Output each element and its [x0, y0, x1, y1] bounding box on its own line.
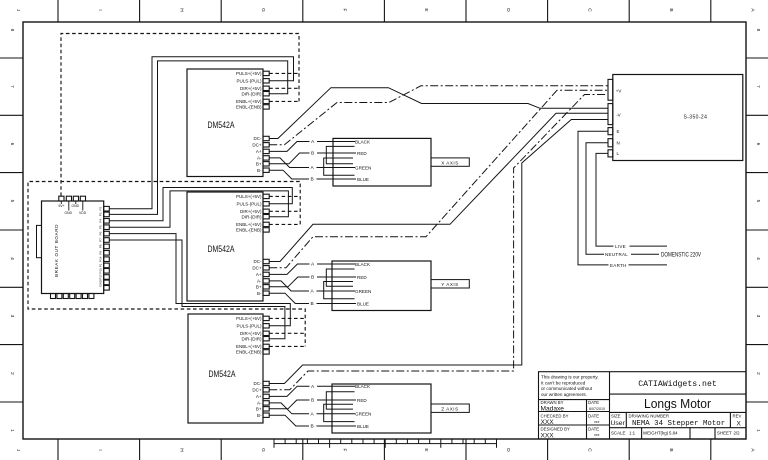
svg-text:Longs Motor: Longs Motor	[644, 396, 712, 411]
svg-text:PULS-(PUL): PULS-(PUL)	[236, 78, 262, 83]
svg-text:DIR+(+5V): DIR+(+5V)	[240, 209, 262, 214]
title block notes text	[541, 375, 599, 397]
svg-text:DM542A: DM542A	[209, 368, 237, 379]
wire U3 B+ jog	[269, 400, 309, 409]
svg-text:ENBL-(ENB): ENBL-(ENB)	[236, 105, 262, 110]
svg-text:DC-: DC-	[254, 381, 262, 386]
driver U1 power pin labels	[252, 136, 262, 173]
wire U3 B- jog	[269, 415, 309, 426]
svg-text:XXX: XXX	[541, 433, 555, 440]
driver U1 signal pin labels	[236, 71, 262, 110]
driver U2 signal pin labels	[236, 194, 262, 233]
wire U2 DC+ to PSU +V dash-dot	[269, 90, 608, 267]
svg-text:2: 2	[755, 372, 761, 375]
wire Y A to GREEN	[317, 290, 356, 292]
svg-text:B: B	[311, 151, 314, 157]
svg-text:DATE: DATE	[588, 400, 599, 405]
svg-text:6: 6	[755, 143, 761, 146]
svg-text:P2: P2	[99, 207, 103, 211]
wire Z A to GREEN	[317, 413, 356, 415]
wire X B to BLUE	[317, 178, 357, 180]
svg-text:5: 5	[9, 200, 15, 203]
wire Y B to RED	[317, 276, 356, 278]
svg-text:DC-: DC-	[254, 136, 262, 141]
wire U3 ENBL+ dashed stub	[269, 345, 305, 347]
power supply -V terminal	[608, 104, 613, 125]
svg-text:LIVE: LIVE	[615, 244, 626, 249]
svg-text:5: 5	[755, 200, 761, 203]
MOTOR X PHASE WIRES	[269, 142, 356, 180]
wire U3 A+ jog	[269, 386, 309, 396]
svg-text:B-: B-	[257, 413, 262, 418]
svg-text:NEMA 34 Stepper Motor: NEMA 34 Stepper Motor	[632, 420, 725, 428]
motor Z lead labels	[355, 384, 371, 429]
driver U3 signal pin labels	[236, 316, 262, 355]
motor Y wire labels	[311, 262, 316, 308]
wire P4 to U2 PULS-	[109, 188, 292, 221]
svg-text:PULS+(+5V): PULS+(+5V)	[236, 194, 262, 199]
motor Z body	[332, 384, 431, 433]
wire U1 A+ jog	[269, 142, 309, 152]
svg-text:DC+: DC+	[252, 142, 261, 147]
svg-text:PULS-(PUL): PULS-(PUL)	[236, 324, 262, 329]
svg-text:ENBL+(+5V): ENBL+(+5V)	[236, 344, 262, 349]
svg-text:E: E	[617, 129, 620, 134]
svg-text:C: C	[586, 8, 592, 12]
breakout board side tab	[37, 225, 42, 257]
svg-text:5V+: 5V+	[59, 204, 65, 208]
svg-text:DIR-(DIR): DIR-(DIR)	[242, 336, 262, 341]
BREAKOUT SIGNAL WIRES	[109, 57, 293, 339]
svg-text:DIR-(DIR): DIR-(DIR)	[242, 214, 262, 219]
+5V DASHED BUS	[28, 34, 305, 347]
wire U2 DC- to PSU -V	[269, 113, 608, 261]
wire Y B to BLUE	[317, 303, 357, 305]
svg-text:3: 3	[9, 315, 15, 318]
svg-text:EARTH: EARTH	[610, 263, 627, 268]
wire U2 A+ jog	[269, 264, 309, 274]
MOTOR Y PHASE WIRES	[269, 264, 356, 304]
svg-text:P8: P8	[99, 244, 103, 248]
motor X coil links	[324, 146, 355, 175]
wire U1 DIR+ dashed stub	[269, 87, 299, 89]
wire X B to RED	[317, 152, 356, 154]
wire U1 PULS+ dashed stub	[269, 72, 299, 74]
svg-text:SIZE: SIZE	[611, 414, 621, 419]
svg-text:our written agreement.: our written agreement.	[541, 392, 587, 397]
svg-text:4: 4	[9, 257, 15, 260]
svg-text:2/2: 2/2	[734, 431, 741, 436]
title block frame	[539, 372, 747, 439]
svg-text:DATE: DATE	[588, 427, 599, 432]
wire U3 DC+ to PSU +V dash-dot	[269, 95, 608, 390]
svg-text:6/07/2010: 6/07/2010	[589, 407, 605, 411]
svg-text:RED: RED	[357, 275, 367, 280]
svg-text:P16: P16	[99, 268, 103, 274]
svg-text:NEUTRAL: NEUTRAL	[605, 252, 628, 257]
grid numbers left	[9, 29, 15, 433]
driver U3 pin squares	[263, 316, 269, 417]
breakout board right pin labels	[99, 207, 103, 287]
power supply L terminal	[608, 150, 613, 157]
svg-text:WEIGHT(kg): WEIGHT(kg)	[643, 431, 669, 436]
wire U2 PULS+ dashed stub	[269, 195, 300, 197]
breakout board top pin labels	[59, 204, 87, 215]
svg-text:DIR+(+5V): DIR+(+5V)	[240, 86, 262, 91]
svg-text:-V: -V	[616, 113, 621, 118]
svg-text:xxx: xxx	[594, 420, 600, 424]
svg-text:ENBL+(+5V): ENBL+(+5V)	[236, 99, 262, 104]
power supply terminal labels	[616, 88, 622, 156]
driver U3 power pin labels	[252, 381, 262, 418]
svg-text:DIR+(+5V): DIR+(+5V)	[240, 331, 262, 336]
svg-text:SCALE: SCALE	[611, 431, 625, 436]
svg-text:ENBL+(+5V): ENBL+(+5V)	[236, 222, 262, 227]
MAINS WIRES	[578, 131, 667, 265]
svg-text:X AXIS: X AXIS	[441, 160, 459, 165]
svg-text:B: B	[311, 275, 314, 281]
svg-text:2: 2	[9, 372, 15, 375]
svg-text:A+: A+	[256, 149, 262, 154]
motor X wire labels	[311, 139, 316, 183]
wire Z A to BLACK	[317, 385, 355, 387]
power supply N terminal	[608, 139, 613, 147]
svg-text:G: G	[260, 448, 266, 452]
svg-text:P14: P14	[99, 256, 103, 262]
centring ruler strip	[274, 439, 497, 448]
svg-text:GREEN: GREEN	[355, 412, 371, 417]
wire LIVE tail	[630, 245, 668, 247]
svg-text:DC-: DC-	[254, 259, 262, 264]
svg-text:N: N	[617, 141, 620, 146]
svg-text:8: 8	[9, 29, 15, 32]
svg-text:DIR-(DIR): DIR-(DIR)	[242, 91, 262, 96]
svg-text:X: X	[737, 420, 742, 427]
wire X A to GREEN	[317, 167, 356, 169]
driver U3 body	[188, 314, 263, 423]
svg-text:B+: B+	[256, 161, 262, 166]
svg-text:E: E	[423, 448, 429, 451]
driver U1 pin squares	[263, 71, 269, 172]
motor Y shaft box	[431, 280, 469, 288]
wire +5V rail 2	[28, 182, 305, 347]
wire U2 ENBL+ dashed stub	[269, 223, 300, 225]
svg-text:F: F	[342, 449, 348, 452]
wire PSU L to LIVE	[596, 153, 614, 246]
svg-text:7: 7	[9, 85, 15, 88]
breakout board top pin stub wires	[61, 201, 83, 211]
svg-text:GND: GND	[65, 211, 73, 215]
svg-text:H: H	[178, 8, 184, 12]
svg-text:DATE: DATE	[588, 413, 599, 418]
svg-text:F: F	[342, 9, 348, 12]
wire EARTH tail	[629, 264, 668, 266]
svg-text:It can't be reproduced: It can't be reproduced	[541, 380, 586, 385]
wire X A to BLACK	[317, 141, 355, 143]
svg-text:BLACK: BLACK	[355, 139, 371, 144]
breakout board top pins	[59, 196, 86, 201]
svg-text:A-: A-	[257, 156, 262, 161]
svg-text:B: B	[668, 8, 674, 11]
svg-text:Y AXIS: Y AXIS	[441, 282, 458, 287]
svg-text:B+: B+	[256, 284, 262, 289]
svg-text:4: 4	[755, 257, 761, 260]
svg-text:GREEN: GREEN	[355, 289, 371, 294]
wire U1 B+ jog	[269, 153, 309, 164]
svg-text:User: User	[611, 420, 626, 427]
svg-text:DM542A: DM542A	[208, 119, 236, 130]
svg-text:SHEET: SHEET	[717, 431, 732, 436]
wire U1 B- jog	[269, 170, 309, 179]
wire U1 A- jog	[269, 158, 309, 168]
wire U3 DC- to PSU -V	[269, 120, 608, 384]
svg-text:B: B	[311, 177, 314, 183]
motor X shaft box	[431, 158, 469, 166]
svg-text:RED: RED	[357, 151, 367, 156]
wire P2 to U1 PULS-	[109, 57, 293, 209]
svg-text:GND: GND	[99, 279, 103, 287]
svg-text:B: B	[668, 448, 674, 451]
svg-text:DM542A: DM542A	[208, 243, 236, 254]
breakout board right pins	[104, 206, 110, 290]
svg-text:C: C	[586, 448, 592, 452]
svg-text:8: 8	[755, 29, 761, 32]
svg-text:DRAWING NUMBER: DRAWING NUMBER	[629, 414, 669, 419]
svg-text:RED: RED	[357, 398, 367, 403]
svg-text:A-: A-	[257, 401, 262, 406]
wire U2 A- jog	[269, 281, 309, 291]
svg-text:7: 7	[755, 85, 761, 88]
wire U2 DIR+ dashed stub	[269, 210, 300, 212]
driver U2 body	[187, 192, 263, 301]
svg-text:BLUE: BLUE	[357, 177, 369, 182]
svg-text:BLUE: BLUE	[357, 301, 369, 306]
wire Z B to RED	[317, 399, 356, 401]
motor Y lead labels	[355, 262, 371, 307]
svg-text:E: E	[423, 8, 429, 11]
svg-text:P9: P9	[99, 251, 103, 255]
svg-text:5.84: 5.84	[669, 431, 678, 436]
svg-text:DESIGNED BY: DESIGNED BY	[541, 427, 571, 432]
svg-text:This drawing is our property.: This drawing is our property.	[541, 375, 599, 380]
driver U2 power pin labels	[252, 259, 262, 296]
wire U2 B- jog	[269, 293, 309, 303]
power supply +V terminal	[608, 79, 613, 100]
svg-text:D: D	[505, 8, 511, 12]
svg-text:GREEN: GREEN	[355, 165, 371, 170]
svg-text:B-: B-	[257, 291, 262, 296]
svg-text:DOMENSTIC 220V: DOMENSTIC 220V	[661, 252, 702, 259]
svg-text:B-: B-	[257, 168, 262, 173]
breakout board body	[42, 201, 104, 294]
motor X body	[333, 138, 431, 186]
power supply PSU body	[613, 75, 743, 161]
svg-text:1: 1	[9, 429, 15, 432]
motor Y coil links	[324, 269, 355, 299]
wire U1 ENBL+ dashed stub	[269, 100, 299, 102]
wire P5 to U2 DIR-	[109, 191, 288, 227]
svg-text:3: 3	[755, 315, 761, 318]
svg-text:B: B	[311, 398, 314, 404]
svg-text:GND: GND	[72, 204, 80, 208]
wire U3 A- jog	[269, 403, 309, 414]
svg-text:P7: P7	[99, 238, 103, 242]
svg-text:xxx: xxx	[594, 433, 600, 437]
svg-text:or communicated without: or communicated without	[541, 386, 593, 391]
svg-text:XXX: XXX	[541, 419, 555, 426]
svg-text:P4: P4	[99, 219, 103, 223]
MOTOR Z PHASE WIRES	[269, 386, 356, 426]
svg-text:P17: P17	[99, 274, 103, 280]
motor Z wire labels	[311, 384, 316, 430]
svg-text:D: D	[505, 448, 511, 452]
driver U1 body	[187, 69, 263, 177]
svg-text:1:1: 1:1	[629, 431, 636, 436]
svg-text:1: 1	[755, 429, 761, 432]
wire Y A to BLACK	[317, 263, 355, 265]
wire U3 PULS+ dashed stub	[269, 317, 305, 319]
svg-text:PULS-(PUL): PULS-(PUL)	[236, 202, 262, 207]
svg-text:Z AXIS: Z AXIS	[441, 406, 458, 411]
svg-text:ENBL-(ENB): ENBL-(ENB)	[236, 350, 262, 355]
wire +5V rail 1	[61, 34, 299, 197]
svg-text:BLACK: BLACK	[355, 384, 371, 389]
motor Y body	[332, 261, 431, 311]
wire U3 DIR+ dashed stub	[269, 332, 305, 334]
svg-text:A+: A+	[256, 272, 262, 277]
svg-text:P1: P1	[99, 263, 103, 267]
svg-text:PULS+(+5V): PULS+(+5V)	[236, 71, 262, 76]
wire P3 to U1 DIR-	[109, 61, 287, 215]
svg-text:DC+: DC+	[252, 387, 261, 392]
breakout board bottom pins	[51, 294, 94, 299]
svg-text:B: B	[311, 301, 314, 307]
svg-text:A+: A+	[256, 394, 262, 399]
svg-text:A-: A-	[257, 279, 262, 284]
motor Z coil links	[324, 392, 355, 422]
wire NEUTRAL tail	[631, 253, 659, 255]
svg-text:S-350-24: S-350-24	[684, 114, 708, 120]
svg-text:P3: P3	[99, 212, 103, 216]
power supply E terminal	[608, 128, 613, 135]
wire U1 DC- to PSU -V	[269, 88, 608, 139]
svg-text:I: I	[97, 9, 103, 10]
svg-text:6: 6	[9, 143, 15, 146]
svg-text:G: G	[260, 8, 266, 12]
driver U2 pin squares	[263, 194, 269, 295]
grid numbers right	[755, 29, 761, 433]
svg-text:B: B	[311, 424, 314, 430]
svg-text:VDD: VDD	[79, 211, 87, 215]
motor X lead labels	[355, 139, 371, 182]
grid letters top	[15, 8, 755, 12]
svg-text:+V: +V	[616, 88, 622, 93]
motor Z shaft box	[431, 404, 469, 412]
svg-text:ENBL-(ENB): ENBL-(ENB)	[236, 228, 262, 233]
svg-text:P6: P6	[99, 231, 103, 235]
wire PSU N to NEUTRAL	[586, 143, 608, 255]
svg-text:BLACK: BLACK	[355, 262, 371, 267]
wire U2 B+ jog	[269, 277, 309, 287]
svg-text:CATIAWidgets.net: CATIAWidgets.net	[638, 379, 717, 389]
svg-text:CHECKED BY: CHECKED BY	[541, 413, 569, 418]
svg-text:Madaxe: Madaxe	[541, 405, 565, 412]
svg-text:H: H	[178, 448, 184, 452]
svg-text:I: I	[97, 449, 103, 450]
svg-text:P5: P5	[99, 225, 103, 229]
svg-text:PULS+(+5V): PULS+(+5V)	[236, 316, 262, 321]
wire PSU E to EARTH	[578, 131, 609, 265]
wire U1 DC+ to PSU +V dash-dot	[269, 86, 608, 145]
grid letters bottom	[15, 448, 755, 452]
wire Z B to BLUE	[317, 425, 357, 427]
svg-text:BLUE: BLUE	[357, 424, 369, 429]
svg-text:BREAK OUT BOARD: BREAK OUT BOARD	[54, 224, 59, 277]
svg-text:REV: REV	[733, 414, 742, 419]
wire P7 to U3 DIR-	[109, 240, 285, 339]
wire P6 to U3 PULS-	[109, 234, 290, 326]
svg-text:B+: B+	[256, 406, 262, 411]
svg-text:DC+: DC+	[252, 265, 261, 270]
